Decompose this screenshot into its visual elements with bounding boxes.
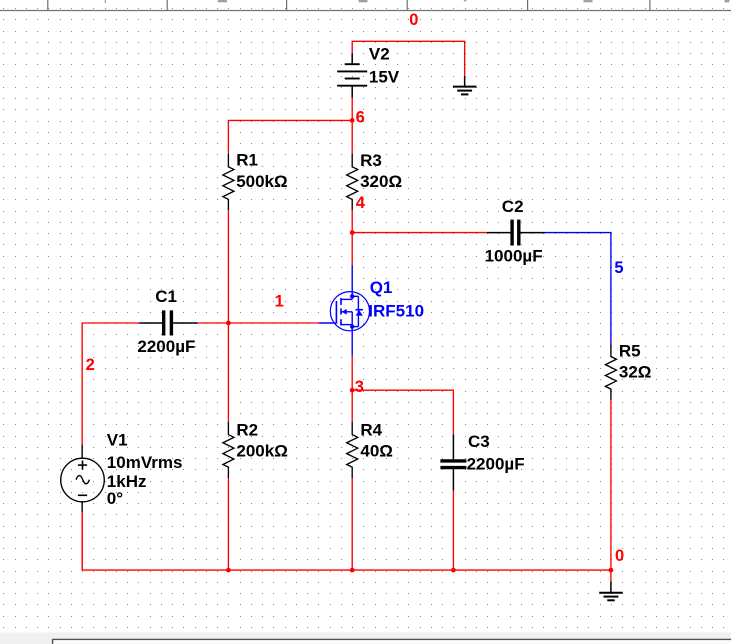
channel arrow [342,309,347,315]
body vertical [357,296,359,326]
capacitor C1 [139,310,197,335]
svg-text:500kΩ: 500kΩ [236,172,287,191]
svg-text:2: 2 [86,356,95,374]
svg-text:32Ω: 32Ω [619,362,652,381]
wire net0 top: V2 plus to ground [352,41,464,76]
ruler major tick 5 [527,0,528,10]
wire V1 bottom to rail [81,512,83,570]
ruler major tick 4 [407,0,408,10]
body stub bottom [352,326,358,328]
wire R1 bottom to node1 junction to R2 [227,210,229,421]
resistor R4 [347,422,358,478]
wire R4 bottom to rail [351,478,353,570]
ruler bottom line [0,10,731,11]
svg-text:C1: C1 [155,287,177,306]
ruler major tick 1 [47,0,48,10]
junction rail R4 [350,568,355,573]
svg-text:40Ω: 40Ω [360,442,393,461]
svg-text:R5: R5 [619,341,641,360]
svg-text:5: 5 [614,259,623,277]
wire R2 bottom to rail [227,478,229,570]
ruler major tick 3 [286,0,287,10]
wire net6: V2 minus to R1/R3 [228,98,352,154]
wire net0 bottom rail [82,512,611,581]
resistor R3 [347,154,358,210]
source bottom tap [341,324,352,326]
capacitor C3 [440,434,466,490]
junction node 4 [350,230,355,235]
source lead blue [351,331,353,356]
ruler number fragment [584,0,593,2]
svg-text:R2: R2 [236,421,258,440]
resistor R2 [223,422,234,478]
ruler number fragment [218,0,227,2]
svg-text:R3: R3 [360,151,382,170]
ruler number fragment [359,0,368,2]
source V1 [61,445,105,513]
spreadsheet panel interior [54,640,731,644]
drain pin dot [350,294,354,298]
resistor R5 [605,344,616,400]
junction node 6 [350,118,355,123]
svg-text:C2: C2 [502,197,524,216]
source mid tap [341,311,352,313]
bottom panel band [0,633,731,644]
body diode triangle [356,310,363,315]
svg-text:Q1: Q1 [370,278,393,297]
svg-text:R1: R1 [236,151,258,170]
svg-text:3: 3 [355,378,364,396]
wire C3 bottom to rail [452,490,454,570]
svg-text:R4: R4 [360,421,382,440]
svg-text:2200µF: 2200µF [137,337,195,356]
svg-text:1000µF: 1000µF [485,247,543,266]
ruler minor tick [105,0,106,3]
channel segment top [340,298,342,305]
svg-text:15V: 15V [369,67,400,86]
ground top right [453,76,477,94]
circle [330,292,369,331]
svg-text:IRF510: IRF510 [368,301,424,320]
source pin dot [350,324,354,328]
transistor Q1 IRF510 [319,265,369,356]
junction rail R2 [226,568,231,573]
svg-text:0: 0 [615,547,624,565]
svg-text:320Ω: 320Ω [360,172,402,191]
svg-text:V2: V2 [369,45,390,64]
ground bottom right [599,582,623,601]
wire net5: C2 to R5 (blue net) [545,233,611,344]
svg-text:1kHz: 1kHz [107,472,147,491]
channel segment mid [340,308,342,314]
channel segment bottom [340,319,342,325]
ruler major tick 2 [167,0,168,10]
capacitor C2 [487,220,545,246]
junction rail C3 [451,568,456,573]
ruler major tick 6 [649,0,650,10]
junction node 1 [226,321,231,326]
svg-text:10mVrms: 10mVrms [107,453,183,472]
source inner vertical [351,312,353,331]
ruler number fragment [725,0,730,2]
svg-text:V1: V1 [107,431,128,450]
wire net4: R3 bottom to Q1 drain and C2 [352,210,487,265]
ruler number fragment [464,0,467,2]
svg-text:2200µF: 2200µF [467,454,525,473]
spreadsheet panel top border [53,639,731,644]
battery V2 [337,53,367,98]
svg-text:4: 4 [356,194,366,212]
gate bar [335,301,337,324]
svg-text:0: 0 [409,11,418,29]
junction node 3 [350,388,355,393]
body diode cathode bar [356,309,363,311]
svg-text:C3: C3 [468,432,490,451]
resistor R1 [223,154,234,210]
svg-text:6: 6 [356,109,365,127]
wire net1 row: V1 top / C1 / gate [82,323,319,445]
body stub top [352,295,358,297]
drain lead blue [351,265,353,300]
junction rail R5 ground [609,568,614,573]
gate lead blue [319,322,336,324]
wire R5 bottom to rail [610,400,612,570]
svg-text:0°: 0° [107,489,123,508]
wire net3: Q1 source to R4 and C3 [352,355,453,434]
svg-text:1: 1 [275,293,284,311]
svg-text:200kΩ: 200kΩ [236,442,287,461]
drain tap [341,298,352,300]
